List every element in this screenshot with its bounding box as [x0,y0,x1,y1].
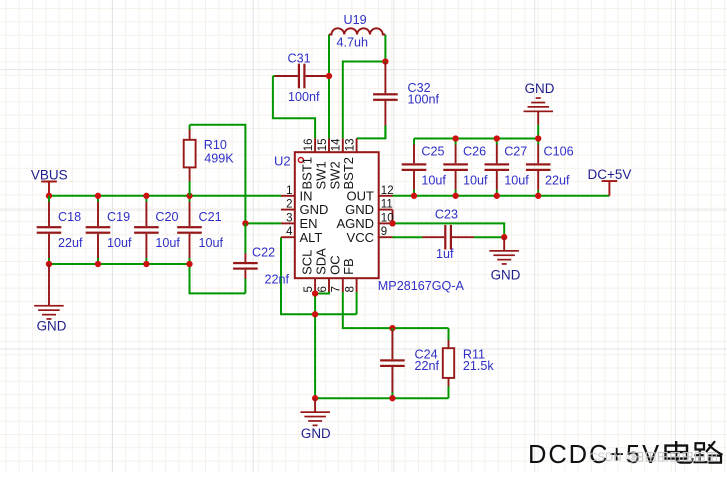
svg-text:10uf: 10uf [504,174,529,188]
wire [384,35,386,62]
IC U2 MP28167GQ-A [274,138,464,293]
svg-text:OUT: OUT [347,188,375,203]
svg-text:15: 15 [317,139,329,152]
svg-text:MP28167GQ-A: MP28167GQ-A [378,279,465,293]
svg-text:GND: GND [37,319,67,334]
inductor U19 (4.7uh) [329,13,385,50]
wire [190,264,246,293]
node SW2 [382,58,388,64]
ground [300,398,331,441]
wire [273,76,315,138]
net port VBUS [31,168,68,196]
svg-text:6: 6 [317,286,329,292]
svg-text:C31: C31 [288,52,311,66]
svg-text:22nf: 22nf [265,272,290,286]
svg-text:U19: U19 [344,13,367,27]
watermark CSDN [589,452,716,464]
svg-text:C21: C21 [199,210,222,224]
svg-text:C22: C22 [252,246,275,260]
capacitor C31 (100nf) [273,52,329,104]
node AGND [389,220,395,226]
wire [245,222,281,224]
junction [143,193,149,199]
wire [343,292,393,328]
junction [143,261,149,267]
junction [186,261,192,267]
junction [494,135,500,141]
resistor R10 (499K) [184,125,235,196]
ground [489,237,520,282]
wire [190,125,246,224]
wire [393,223,505,237]
capacitor C22 (22nf) [233,223,289,293]
svg-text:21.5k: 21.5k [463,359,495,373]
capacitor C26 (10uf) [443,139,488,196]
node VBUS junction [46,193,52,199]
ground [34,264,67,334]
svg-text:9: 9 [381,226,387,238]
svg-text:VBUS: VBUS [31,168,68,183]
svg-text:2: 2 [286,199,292,211]
svg-text:C18: C18 [58,210,81,224]
svg-text:EN: EN [300,216,318,231]
svg-text:C23: C23 [435,208,458,222]
svg-text:R10: R10 [204,138,227,152]
svg-text:10uf: 10uf [199,236,224,250]
svg-text:CSDN @: CSDN @ [589,452,636,464]
junction [494,193,500,199]
svg-text:10uf: 10uf [107,236,132,250]
junction [95,261,101,267]
wire (pin11 to pin10 link) [392,210,394,224]
capacitor C24 (22nf) [380,328,439,398]
ground [524,81,555,125]
junction [452,135,458,141]
svg-text:1: 1 [286,185,292,197]
junction [389,395,395,401]
junction [411,193,417,199]
wire [476,236,505,238]
svg-text:OC: OC [327,255,342,275]
capacitor C19 (10uf) [86,196,132,264]
wire [356,292,358,314]
capacitor C25 (10uf) [402,139,447,196]
svg-text:C19: C19 [107,210,130,224]
capacitor C32 (100nf) [373,62,439,139]
svg-text:IN: IN [300,188,313,203]
junction ALT bus [312,311,318,317]
svg-text:3: 3 [286,212,292,224]
svg-text:7: 7 [331,286,343,292]
svg-text:1uf: 1uf [436,247,454,261]
capacitor C18 (22uf) [37,196,83,264]
svg-text:C26: C26 [463,144,486,158]
svg-text:10uf: 10uf [155,236,180,250]
node EN [242,220,248,226]
wire [315,292,329,398]
svg-text:AGND: AGND [336,216,374,231]
svg-text:4.7uh: 4.7uh [337,36,369,50]
svg-text:SW2: SW2 [327,161,342,189]
wire [393,236,421,238]
wire [414,138,538,140]
wire [537,125,539,139]
node OC [389,325,395,331]
svg-text:10uf: 10uf [421,174,446,188]
wire [393,195,610,197]
svg-text:SCL: SCL [300,250,315,275]
net port DC+5V [588,167,632,196]
svg-text:C20: C20 [155,210,178,224]
svg-text:10uf: 10uf [463,174,488,188]
wire [315,397,448,399]
svg-text:FB: FB [341,258,356,275]
capacitor C23 (1uf) [421,208,476,261]
junction pins 5/6 [312,290,318,296]
svg-text:11: 11 [381,199,393,211]
svg-text:ALT: ALT [300,230,323,245]
svg-text:SDA: SDA [314,248,329,275]
svg-text:499K: 499K [204,151,234,165]
wire [328,35,330,139]
capacitor C106 (22uf) [526,139,574,196]
junction [452,193,458,199]
svg-text:GND: GND [300,202,329,217]
svg-text:13: 13 [344,139,356,152]
svg-text:BST1: BST1 [300,157,315,190]
title CJK char 路 [694,441,723,462]
junction [535,193,541,199]
svg-text:GND: GND [345,202,374,217]
resistor R11 (21.5k) [443,328,495,398]
svg-text:VCC: VCC [347,230,374,245]
svg-text:100nf: 100nf [408,93,440,107]
svg-text:16: 16 [303,139,315,152]
svg-text:DC+5V: DC+5V [588,167,632,182]
capacitor C21 (10uf) [177,196,223,264]
svg-text:22nf: 22nf [415,359,440,373]
wire [49,263,190,265]
svg-text:C27: C27 [504,144,527,158]
svg-text:100nf: 100nf [288,90,320,104]
svg-text:14: 14 [331,138,343,151]
svg-text:SW1: SW1 [314,161,329,189]
junction [46,261,52,267]
wire [392,327,448,329]
svg-text:U2: U2 [274,153,291,168]
svg-text:8: 8 [344,286,356,292]
svg-text:C106: C106 [544,144,574,158]
svg-text:GND: GND [301,426,331,441]
node VCC gnd [501,234,507,240]
wire [49,195,281,197]
svg-text:C25: C25 [421,144,444,158]
svg-text:GND: GND [491,268,521,283]
junction gnd bus [312,395,318,401]
svg-text:GND: GND [525,81,555,96]
svg-text:BST2: BST2 [341,157,356,190]
wire [343,62,386,139]
title CJK char 电 [666,441,693,463]
svg-text:22uf: 22uf [58,236,83,250]
svg-text:12: 12 [381,185,394,197]
junction [186,193,192,199]
wire [281,237,357,314]
wire [357,125,386,138]
node SW1/C31 [326,73,332,79]
junction [95,193,101,199]
capacitor C20 (10uf) [134,196,180,264]
svg-text:4: 4 [286,226,293,238]
svg-text:22uf: 22uf [545,174,570,188]
junction [535,135,541,141]
capacitor C27 (10uf) [485,139,530,196]
